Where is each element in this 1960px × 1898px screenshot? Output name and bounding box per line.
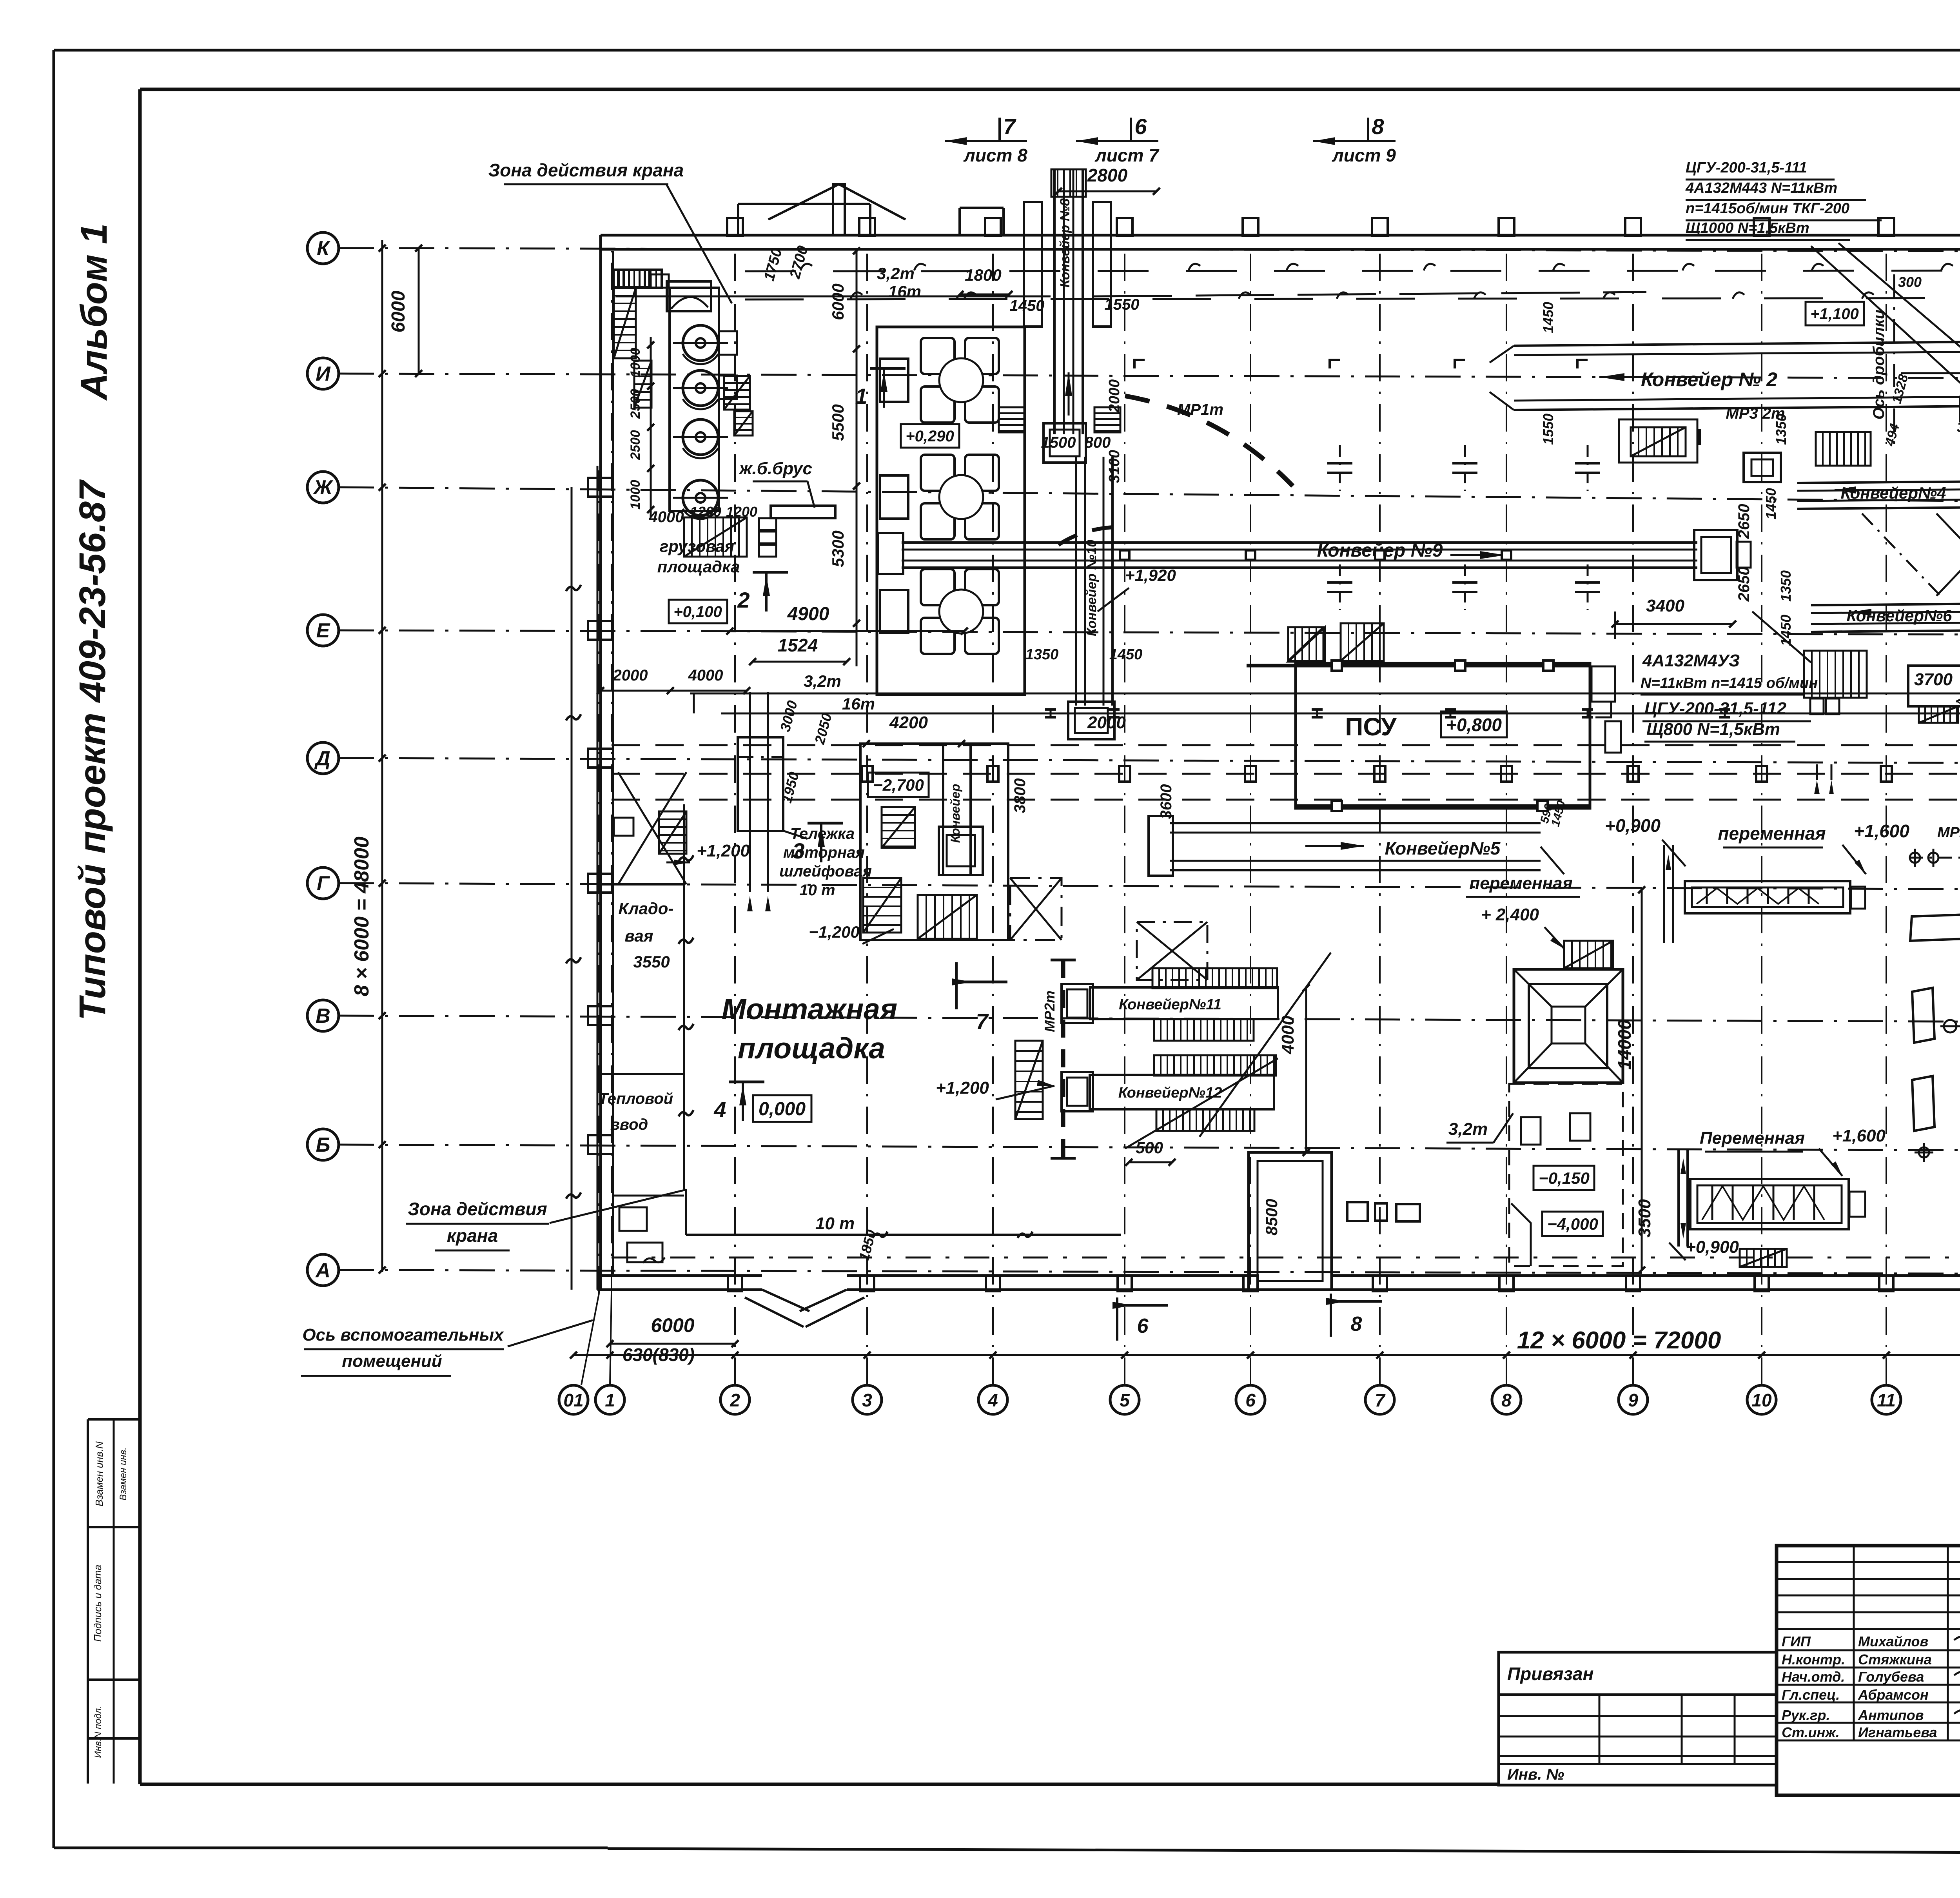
svg-text:ПСУ: ПСУ	[1345, 713, 1397, 741]
conveyor N2	[1514, 340, 1960, 346]
mast upper screw	[1663, 845, 1665, 943]
axis circle И left	[307, 358, 339, 389]
svg-text:1000: 1000	[628, 348, 643, 377]
svg-text:Зона действия: Зона действия	[408, 1199, 547, 1219]
svg-text:6000: 6000	[388, 290, 409, 332]
svg-text:2000: 2000	[1087, 713, 1126, 732]
svg-text:1450: 1450	[1778, 615, 1794, 646]
bottom dimension line	[573, 1354, 1960, 1356]
svg-text:2800: 2800	[1087, 165, 1128, 185]
montage area boundary bottom	[686, 1234, 1121, 1236]
box 3700 with +2,500	[1908, 666, 1960, 706]
svg-text:10: 10	[1751, 1390, 1772, 1410]
svg-text:6000: 6000	[651, 1314, 694, 1336]
vertical dim chain 1000 2500 2500 2500 1000	[650, 337, 652, 517]
MP3 2t hoist dashes	[1697, 429, 1701, 455]
axis circle Д left	[307, 742, 339, 774]
svg-text:2650: 2650	[1735, 504, 1753, 539]
svg-text:грузовая: грузовая	[660, 537, 734, 555]
svg-text:+1,100: +1,100	[1810, 305, 1858, 323]
svg-text:Конвейер № 2: Конвейер № 2	[1641, 368, 1777, 390]
svg-text:Ось вспомогательных: Ось вспомогательных	[302, 1325, 504, 1345]
break squiggles on bottom crane line	[693, 693, 695, 713]
conveyor N11	[1152, 968, 1277, 988]
svg-text:10 т: 10 т	[799, 882, 835, 899]
small dashes grid along bottom band	[612, 1257, 1960, 1259]
svg-text:1450: 1450	[1109, 646, 1143, 663]
diagonal cross square mid	[1010, 878, 1062, 940]
svg-text:лист 9: лист 9	[1332, 145, 1396, 165]
svg-text:А: А	[315, 1259, 330, 1282]
sheet mark 7 / list 8	[998, 118, 1001, 141]
svg-text:3600: 3600	[1158, 784, 1175, 819]
mast lower screw	[1677, 1149, 1680, 1247]
svg-text:Ст.инж.: Ст.инж.	[1782, 1724, 1840, 1740]
svg-text:И: И	[316, 363, 331, 385]
conveyor N9 long horizontal	[902, 541, 1697, 544]
conveyor N8 head	[1044, 423, 1086, 463]
conveyor N5 tail	[1149, 816, 1173, 876]
column axis circle 2	[720, 1385, 750, 1414]
gallery dashed band along axis D	[612, 744, 1960, 746]
svg-text:Б: Б	[316, 1134, 330, 1156]
svg-text:6: 6	[1245, 1390, 1256, 1410]
privyazan table	[1499, 1652, 1777, 1785]
svg-text:Тепловой: Тепловой	[599, 1090, 673, 1107]
parapet structure above axis K cols 2-3	[738, 203, 870, 205]
svg-text:Стяжкина: Стяжкина	[1858, 1651, 1932, 1668]
section mark 1	[870, 367, 906, 370]
svg-text:ввод: ввод	[610, 1116, 648, 1133]
sheet mark 8 / list 9	[1367, 118, 1369, 141]
ladder near MP2t	[1015, 1041, 1043, 1119]
axis circle А left	[307, 1254, 339, 1286]
dash-dot X square	[1137, 922, 1207, 980]
column axis circle 7	[1365, 1385, 1394, 1414]
svg-text:1200: 1200	[690, 504, 721, 520]
diagonal leaders over conveyors	[1200, 953, 1331, 1137]
svg-text:Е: Е	[316, 619, 330, 642]
svg-text:1550: 1550	[1540, 414, 1556, 445]
column axis circle 3	[853, 1385, 882, 1414]
svg-text:2: 2	[737, 588, 750, 612]
conveyor N8 vertical	[1053, 169, 1056, 434]
svg-text:ЦГУ-200-31,5-111: ЦГУ-200-31,5-111	[1686, 160, 1807, 176]
svg-text:14000: 14000	[1614, 1020, 1635, 1070]
svg-text:Антипов: Антипов	[1858, 1707, 1924, 1723]
stairs to hopper	[1564, 941, 1613, 968]
axis circle Б left	[307, 1129, 339, 1160]
montage area left wall	[683, 804, 685, 1189]
svg-text:помещений: помещений	[342, 1352, 442, 1371]
svg-text:Конвейер№6: Конвейер№6	[1846, 606, 1952, 625]
svg-text:Г: Г	[317, 872, 330, 895]
svg-text:2650: 2650	[1735, 567, 1753, 602]
left vertical dimension line 8x6000=48000	[381, 240, 383, 1272]
conveyor N9 tail left	[878, 533, 903, 574]
svg-text:Голубева: Голубева	[1858, 1669, 1924, 1685]
PSU right side details	[1592, 666, 1615, 702]
svg-text:6: 6	[1134, 114, 1147, 139]
svg-text:лист 8: лист 8	[963, 145, 1027, 165]
machine room right of trolley	[860, 744, 1008, 940]
svg-text:−2,700: −2,700	[873, 776, 924, 794]
svg-text:1000: 1000	[628, 480, 643, 510]
svg-text:+1,600: +1,600	[1832, 1126, 1886, 1145]
storeroom walls	[597, 883, 684, 885]
svg-text:переменная: переменная	[1718, 823, 1826, 844]
svg-text:300: 300	[1898, 274, 1922, 290]
thick line left of PSU	[1247, 664, 1296, 668]
svg-text:переменная: переменная	[1469, 874, 1572, 893]
small stairs below wheels	[684, 517, 747, 557]
svg-text:+1,200: +1,200	[697, 841, 750, 860]
svg-text:4000: 4000	[1278, 1016, 1298, 1054]
svg-text:шлейфовая: шлейфовая	[779, 863, 872, 880]
svg-text:Привязан: Привязан	[1507, 1664, 1593, 1684]
elevation -4,000 boxed	[1542, 1212, 1603, 1236]
paper outer edge	[54, 49, 1960, 52]
svg-text:Нач.отд.: Нач.отд.	[1782, 1669, 1845, 1685]
svg-text:вая: вая	[625, 927, 653, 945]
svg-text:Взамен инв.: Взамен инв.	[118, 1447, 129, 1501]
svg-text:4А132М4УЗ: 4А132М4УЗ	[1642, 651, 1740, 670]
I-beam symbols on crane rails	[1045, 708, 1056, 711]
wall pilasters on left wall	[588, 478, 613, 497]
door funnel in bottom wall	[762, 1290, 809, 1311]
feeder pads	[921, 338, 955, 374]
gate 8500 bottom	[1249, 1152, 1332, 1290]
leader line from crane zone text	[666, 184, 732, 303]
svg-text:МР2т: МР2т	[1042, 991, 1058, 1032]
svg-text:0,000: 0,000	[759, 1099, 806, 1120]
PSU elevation +0,800	[1441, 711, 1507, 737]
three small boxes	[1347, 1202, 1368, 1221]
section mark 7 horizontal	[955, 962, 958, 1009]
ribbed box above N4	[1816, 432, 1871, 466]
svg-text:12 × 6000 = 72000: 12 × 6000 = 72000	[1517, 1327, 1721, 1354]
axis circle Г left	[307, 867, 339, 899]
platform elevation +0,100	[669, 600, 727, 623]
feeder wheel circle	[939, 358, 983, 402]
svg-text:4200: 4200	[889, 713, 928, 732]
conveyor N8 portal side walls	[1024, 202, 1042, 327]
wall hatch marks top-left corner	[614, 270, 649, 287]
MP2t dashed monorail vertical	[1061, 960, 1065, 1158]
dashes along I axis right	[1901, 372, 1960, 374]
left dimension 6000 between K and I	[418, 248, 420, 374]
svg-text:16т: 16т	[888, 282, 921, 301]
svg-text:1800: 1800	[965, 266, 1001, 284]
svg-text:Гл.спец.: Гл.спец.	[1782, 1687, 1840, 1703]
ribbed box below N6	[1804, 651, 1867, 698]
column axis circle 01	[559, 1385, 588, 1414]
svg-text:5: 5	[1120, 1390, 1130, 1410]
bottom left corner room details	[619, 1207, 647, 1231]
feeder pads	[921, 569, 955, 605]
svg-text:площадка: площадка	[657, 557, 740, 576]
svg-text:Конвейер№12: Конвейер№12	[1118, 1085, 1222, 1101]
axis circle К left	[307, 232, 339, 264]
svg-text:3400: 3400	[1646, 596, 1684, 615]
dim 14000 vertical	[1641, 890, 1643, 1270]
hook symbols on axis I	[1330, 360, 1340, 368]
svg-text:моторная: моторная	[783, 844, 865, 861]
svg-text:3: 3	[862, 1390, 872, 1410]
section mark 4	[729, 1081, 764, 1083]
svg-text:3,2т: 3,2т	[804, 672, 841, 690]
signature squiggles	[1954, 1635, 1960, 1642]
column axis circle 8	[1492, 1385, 1521, 1414]
feeder wheel circle	[939, 590, 983, 633]
BB small boxes	[1810, 699, 1824, 714]
svg-text:Кладо-: Кладо-	[619, 899, 674, 918]
dim 1524	[753, 661, 847, 663]
svg-text:1524: 1524	[778, 635, 818, 655]
vertical column axis lines	[581, 1294, 599, 1385]
svg-text:ГИП: ГИП	[1782, 1633, 1811, 1649]
svg-text:Абрамсон: Абрамсон	[1858, 1687, 1929, 1703]
axis circle Е left	[307, 615, 339, 646]
svg-text:8500: 8500	[1262, 1199, 1281, 1235]
svg-text:Игнатьева: Игнатьева	[1858, 1724, 1937, 1740]
column axis circle 5	[1110, 1385, 1139, 1414]
svg-text:2000: 2000	[613, 667, 648, 684]
feeder block rectangle	[877, 327, 1025, 695]
svg-text:Монтажная: Монтажная	[722, 993, 897, 1025]
svg-text:Типовой проект 409-23-56.87: Типовой проект 409-23-56.87	[72, 479, 113, 1020]
column axis circle 1	[595, 1385, 624, 1414]
svg-text:+1,200: +1,200	[936, 1078, 989, 1098]
svg-text:n=1415об/мин ТКГ-200: n=1415об/мин ТКГ-200	[1686, 200, 1849, 217]
feeder elevation +0,290	[901, 424, 959, 448]
dim 2000 4000 under platform	[601, 690, 747, 692]
svg-text:+1,920: +1,920	[1125, 566, 1176, 584]
section mark 2	[753, 571, 788, 574]
svg-text:Переменная: Переменная	[1700, 1129, 1805, 1148]
svg-text:Альбом 1: Альбом 1	[73, 223, 115, 401]
column axis circle 11	[1872, 1385, 1901, 1414]
dim 4900	[730, 630, 964, 632]
svg-text:3700: 3700	[1914, 670, 1953, 689]
svg-text:+0,900: +0,900	[1686, 1238, 1739, 1257]
svg-text:01: 01	[563, 1390, 583, 1410]
svg-text:4000: 4000	[649, 508, 684, 526]
svg-text:Рук.гр.: Рук.гр.	[1782, 1707, 1830, 1723]
upper wide tilted machine	[1910, 913, 1960, 941]
svg-text:ж.б.брус: ж.б.брус	[739, 459, 812, 478]
svg-text:9: 9	[1628, 1390, 1638, 1410]
svg-text:1450: 1450	[1010, 297, 1045, 314]
svg-text:К: К	[317, 237, 330, 260]
small circle symbols	[1944, 1020, 1956, 1032]
svg-text:1450: 1450	[1763, 488, 1779, 519]
tilted crusher plates	[1912, 988, 1935, 1043]
svg-text:Взамен инв.N: Взамен инв.N	[93, 1441, 105, 1506]
machines on PSU top edge	[1288, 627, 1323, 661]
trolley rails and cart	[738, 737, 783, 831]
svg-text:Инв.N подл.: Инв.N подл.	[93, 1706, 103, 1758]
svg-text:Щ1000 N=1,5кВт: Щ1000 N=1,5кВт	[1686, 220, 1809, 236]
svg-text:4: 4	[987, 1390, 998, 1410]
svg-text:+0,290: +0,290	[906, 428, 954, 445]
column axis circle 4	[978, 1385, 1007, 1414]
svg-text:МР2т: МР2т	[1937, 824, 1960, 841]
svg-text:7: 7	[976, 1009, 989, 1034]
svg-text:1350: 1350	[1778, 570, 1794, 602]
stairs under conveyor N2	[1631, 427, 1686, 456]
conveyor N12	[1154, 1055, 1276, 1076]
svg-text:Инв. №: Инв. №	[1507, 1766, 1564, 1783]
svg-text:3500: 3500	[1635, 1199, 1654, 1238]
section mark 3	[808, 822, 843, 825]
svg-text:630(830): 630(830)	[622, 1345, 695, 1365]
svg-text:Зона действия крана: Зона действия крана	[488, 160, 684, 180]
conveyor N9 support nodes	[1120, 550, 1129, 560]
column axis circle 10	[1747, 1385, 1776, 1414]
stairs flanking N8 tube	[999, 407, 1025, 432]
vertical dim line with 6000 5500 5300	[856, 251, 858, 666]
svg-text:1550: 1550	[1105, 296, 1140, 313]
svg-text:5500: 5500	[829, 404, 847, 441]
svg-text:+1,600: +1,600	[1854, 821, 1909, 841]
conveyor N10 head	[1068, 702, 1114, 739]
svg-text:N=11кВт n=1415 об/мин: N=11кВт n=1415 об/мин	[1641, 675, 1818, 691]
svg-text:крана: крана	[447, 1225, 498, 1246]
svg-text:−1,200: −1,200	[809, 923, 860, 941]
svg-text:1450: 1450	[1540, 302, 1556, 333]
hopper square with X	[1514, 969, 1623, 1083]
svg-text:1500: 1500	[1041, 434, 1076, 451]
svg-text:325: 325	[1957, 419, 1960, 435]
screw conveyor lower right	[1690, 1179, 1849, 1229]
column tabs on top wall	[727, 218, 743, 236]
dimension text 6000 bay 1-2	[610, 1343, 735, 1345]
PSU rectangle	[1296, 663, 1590, 808]
svg-text:+0,100: +0,100	[673, 603, 722, 621]
hooks on wall K openings	[800, 264, 812, 270]
svg-text:7: 7	[1003, 114, 1016, 139]
long dash rows below K wall	[745, 270, 1960, 271]
svg-text:+0,900: +0,900	[1605, 815, 1661, 836]
conveyor N9 head right	[1694, 530, 1737, 580]
crane cab rect	[667, 281, 711, 311]
svg-text:8: 8	[1372, 114, 1384, 139]
svg-text:площадка: площадка	[738, 1032, 885, 1065]
portal above K cols 3-4	[958, 208, 961, 235]
crane rail lines 3.2t 16t	[690, 693, 1960, 695]
svg-text:Д: Д	[314, 747, 330, 770]
svg-text:−4,000: −4,000	[1547, 1215, 1598, 1233]
svg-text:3550: 3550	[633, 953, 670, 971]
svg-text:6: 6	[1137, 1315, 1149, 1337]
diagonal cross between conveyors	[1936, 514, 1960, 596]
elevation 0,000 boxed	[753, 1095, 811, 1122]
svg-text:Н.контр.: Н.контр.	[1782, 1651, 1845, 1668]
horizontal axis lines	[339, 248, 1960, 252]
title block outer	[1777, 1546, 1960, 1795]
feeder left slot	[880, 590, 908, 633]
svg-text:3800: 3800	[1011, 778, 1029, 813]
elevation -0,150 boxed	[1534, 1166, 1594, 1190]
svg-text:3100: 3100	[1106, 450, 1123, 483]
svg-text:Конвейер№4: Конвейер№4	[1840, 484, 1946, 502]
pads right of wheels	[719, 331, 737, 355]
svg-text:Конвейер№11: Конвейер№11	[1119, 996, 1221, 1013]
feeder pads	[921, 455, 955, 491]
svg-text:2500: 2500	[628, 430, 643, 460]
svg-text:16т: 16т	[842, 695, 875, 713]
svg-text:7: 7	[1375, 1390, 1386, 1410]
sheet mark 6 / list 7	[1130, 118, 1132, 141]
left main wall axis 1	[599, 235, 602, 1290]
auxiliary rooms wall line 01	[597, 466, 599, 1290]
svg-text:Михайлов: Михайлов	[1858, 1633, 1928, 1649]
inner line along K wall	[615, 296, 1051, 298]
svg-text:8 × 6000 = 48000: 8 × 6000 = 48000	[350, 836, 373, 996]
screw conveyor upper right	[1685, 881, 1850, 913]
leader from motor notes	[1752, 611, 1811, 662]
svg-text:1200: 1200	[726, 504, 757, 520]
svg-text:Конвейер №10: Конвейер №10	[1084, 540, 1099, 636]
svg-text:ЦГУ-200-31,5-112: ЦГУ-200-31,5-112	[1644, 699, 1787, 718]
column symbols mid span	[1327, 462, 1352, 465]
svg-text:4900: 4900	[787, 604, 829, 624]
svg-text:Ось дробилки: Ось дробилки	[1870, 310, 1887, 420]
axis circle В left	[307, 1000, 339, 1031]
leader lines from notes to crusher	[1838, 243, 1960, 424]
svg-text:2: 2	[730, 1390, 740, 1410]
svg-text:МР1т: МР1т	[1177, 401, 1223, 418]
elevation -2,700 boxed	[868, 773, 929, 797]
pit below hopper dashed	[1509, 1084, 1623, 1266]
svg-text:4А132М443 N=11кВт: 4А132М443 N=11кВт	[1685, 180, 1837, 196]
column symbols along gallery	[862, 766, 873, 782]
conveyor N4	[1797, 481, 1960, 483]
drive unit column of 4 wheels	[670, 288, 719, 511]
conveyor N5	[1170, 822, 1541, 824]
svg-text:Ж: Ж	[312, 476, 334, 499]
svg-text:11: 11	[1877, 1390, 1896, 1410]
inner drawing frame	[140, 88, 1960, 91]
feeder wheel circle	[939, 475, 983, 519]
auxiliary outer wall	[571, 487, 573, 1290]
svg-text:4: 4	[713, 1097, 726, 1122]
feeder left slot	[880, 359, 908, 402]
svg-text:4000: 4000	[688, 667, 723, 684]
svg-text:В: В	[316, 1005, 330, 1027]
conveyor N6	[1811, 604, 1960, 605]
column axis circle 9	[1619, 1385, 1648, 1414]
svg-text:3,2т: 3,2т	[1448, 1120, 1488, 1139]
conveyor N10 vertical	[1075, 457, 1077, 706]
svg-text:5300: 5300	[829, 530, 847, 567]
svg-text:3,2т: 3,2т	[877, 264, 915, 283]
svg-text:Щ800 N=1,5кВт: Щ800 N=1,5кВт	[1646, 720, 1780, 739]
svg-text:500: 500	[1136, 1138, 1163, 1157]
svg-text:Конвейер №8: Конвейер №8	[1058, 198, 1073, 287]
bottom wall along axis A	[597, 1274, 762, 1277]
stairwell top-left	[614, 288, 636, 358]
svg-text:Тележка: Тележка	[790, 825, 855, 842]
svg-text:1350: 1350	[1773, 414, 1789, 445]
top wall along axis K	[601, 234, 1960, 237]
svg-text:1: 1	[605, 1390, 615, 1410]
column tabs on bottom wall	[728, 1276, 742, 1291]
svg-text:−0,150: −0,150	[1539, 1169, 1590, 1187]
feeder left slot	[880, 475, 908, 519]
svg-text:8: 8	[1351, 1313, 1362, 1335]
